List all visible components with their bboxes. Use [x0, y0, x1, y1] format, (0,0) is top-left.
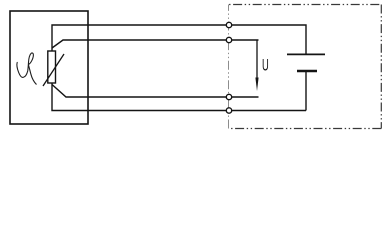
svg-text:U: U	[262, 56, 269, 75]
